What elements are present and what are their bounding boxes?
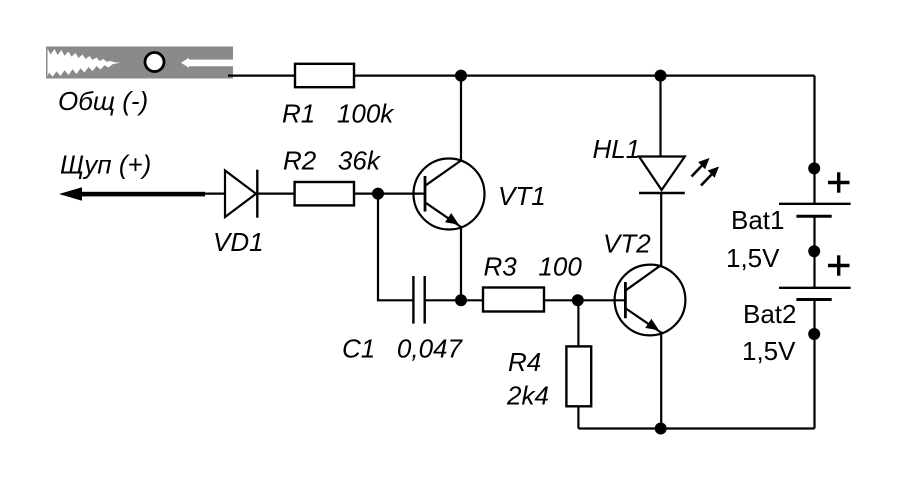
plus sign Bat2 [828, 255, 850, 275]
node R2/base/C1 junction [372, 188, 384, 200]
svg-text:VD1: VD1 [213, 227, 264, 257]
svg-text:Щуп (+): Щуп (+) [60, 149, 151, 179]
wire VT2 collector up to HL1 [660, 193, 662, 266]
node R3/R4 junction [572, 294, 584, 306]
clip slot arrow [181, 58, 233, 68]
wire C1 to R3 [425, 299, 483, 301]
wire bottom rail [578, 427, 814, 429]
HL1 light arrow 1 [692, 158, 710, 177]
resistor R2 [295, 182, 354, 205]
svg-text:R3 100: R3 100 [484, 252, 583, 282]
capacitor C1 [413, 276, 424, 324]
svg-text:2k4: 2k4 [506, 380, 549, 410]
svg-text:1,5V: 1,5V [742, 336, 796, 366]
resistor R3 [483, 288, 544, 312]
wire R2 to VT1 base [354, 193, 425, 195]
resistor R1 [295, 64, 354, 87]
battery Bat2 [779, 288, 851, 300]
alligator clip body [46, 47, 233, 79]
wire R1 to battery (top rail) [354, 74, 815, 76]
wire VT2 emitter down [660, 332, 662, 429]
svg-text:1,5V: 1,5V [726, 243, 780, 273]
node HL1 junction [655, 70, 667, 82]
wire between batteries [813, 216, 815, 288]
clip teeth zigzag [48, 49, 121, 77]
wire right rail bottom [813, 300, 815, 429]
HL1 light arrow 2 [701, 167, 719, 186]
plus sign Bat1 [828, 172, 850, 192]
node between batteries [808, 245, 820, 257]
node below Bat2 [808, 328, 820, 340]
wire probe to VD1 [203, 193, 225, 195]
svg-text:Общ (-): Общ (-) [58, 86, 148, 116]
svg-text:HL1: HL1 [593, 134, 641, 164]
svg-text:Bat2: Bat2 [743, 299, 797, 329]
diode VD1 [225, 170, 257, 218]
wire clip to R1 [228, 74, 295, 76]
node battery top [808, 162, 820, 174]
wire VT1 collector up [460, 76, 462, 161]
svg-text:R4: R4 [508, 347, 541, 377]
node C1/emitter junction [455, 294, 467, 306]
wire R3 to VT2 base [544, 299, 625, 301]
svg-text:VT2: VT2 [603, 228, 651, 258]
wire junction down to C1 [378, 194, 413, 301]
svg-text:R1 100k: R1 100k [282, 99, 395, 129]
svg-text:VT1: VT1 [498, 181, 546, 211]
svg-text:Bat1: Bat1 [731, 205, 785, 235]
wire R4 to bottom rail [577, 406, 579, 428]
node VT2 emitter bottom junction [655, 423, 667, 435]
probe arrow [59, 187, 205, 201]
transistor VT1 [414, 159, 485, 230]
wire VD1 to R2 [257, 193, 294, 195]
clip hole [145, 53, 164, 72]
battery Bat1 [779, 204, 851, 216]
LED HL1 [639, 76, 685, 193]
wire junction down to R4 [577, 300, 579, 346]
wire VT1 emitter down [460, 226, 462, 300]
resistor R4 [566, 346, 591, 406]
node VT1 collector junction [455, 70, 467, 82]
svg-text:R2 36k: R2 36k [283, 145, 382, 175]
svg-text:C1 0,047: C1 0,047 [342, 334, 464, 364]
wire right rail top [813, 76, 815, 204]
transistor VT2 [615, 265, 686, 336]
